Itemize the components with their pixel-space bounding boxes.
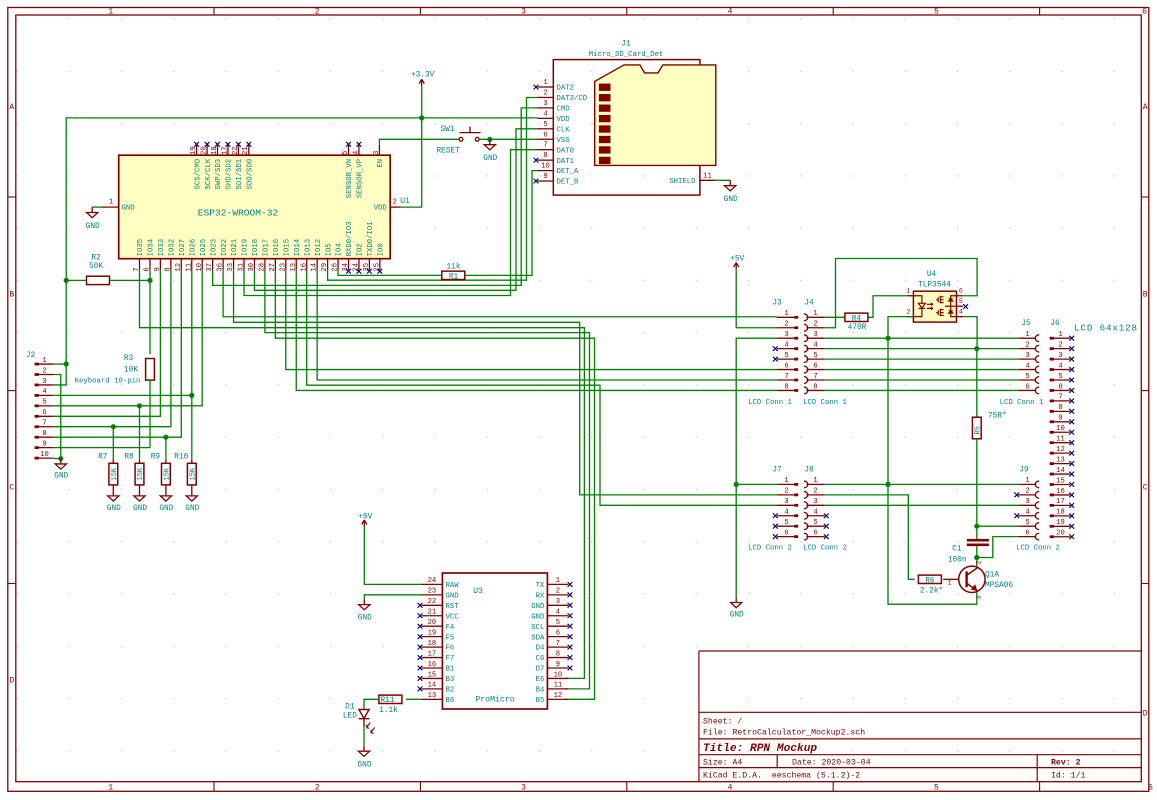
+3.3V power symbol: [419, 79, 424, 86]
J3 pin 7: [777, 379, 794, 381]
no-connect X on J6 pin 3: [1069, 357, 1074, 362]
no-connect X on J7 pin 5: [773, 524, 778, 529]
junction R5 line at J9.5 row: [974, 524, 979, 529]
svg-text:LCD Conn 2: LCD Conn 2: [1016, 545, 1060, 553]
LED D1: [359, 710, 375, 734]
wire +3.3V rail to SD VDD pin: [422, 117, 538, 119]
J8 pin 2: [804, 491, 808, 498]
wire +3.3V stem to rail junction: [421, 86, 423, 118]
svg-text:1.1k: 1.1k: [379, 707, 398, 715]
svg-text:10: 10: [1056, 425, 1065, 433]
svg-text:6: 6: [1058, 383, 1062, 391]
svg-text:J6: J6: [1050, 320, 1060, 328]
no-connect X on J6 pin 2: [1069, 346, 1074, 351]
J5 pin 3: [1018, 358, 1036, 360]
junction J2.10-GND: [58, 456, 63, 461]
J5 pin 5: [1018, 379, 1036, 381]
svg-text:GND: GND: [446, 592, 460, 600]
U4 pin 2: [907, 316, 914, 318]
no-connect X on J6 pin 16: [1069, 493, 1074, 498]
J1 pin 3 CMD: [538, 107, 554, 109]
no-connect X on U1 pin 17: [226, 142, 231, 147]
svg-text:8: 8: [556, 650, 560, 658]
svg-text:SW1: SW1: [440, 126, 454, 134]
wire J4.3 to J5.1: [825, 337, 1019, 339]
svg-text:F6: F6: [446, 645, 455, 653]
ground at D1: [358, 746, 369, 757]
wire DAT0 to IO19: [244, 150, 538, 296]
no-connect X on J6 pin 13: [1069, 461, 1074, 466]
svg-text:ProMicro: ProMicro: [475, 695, 514, 705]
wire +3.3V rail left to keyboard: [66, 118, 422, 364]
svg-text:RXD0/IO3: RXD0/IO3: [346, 221, 354, 256]
wire +5V to RAW: [364, 527, 421, 584]
J6 pin 4: [1050, 369, 1071, 371]
U3 left pin 14 B2: [422, 688, 443, 690]
J1 pin 8 DAT1: [538, 159, 554, 161]
svg-text:A: A: [9, 103, 14, 112]
U1 top pin 21 SDO/SD0: [248, 145, 250, 156]
svg-text:B4: B4: [536, 687, 545, 695]
svg-text:TX: TX: [536, 582, 545, 590]
svg-text:75R*: 75R*: [988, 413, 1007, 421]
wire IO16 to U3 B5: [275, 270, 594, 700]
U1 bottom pin 14 IO12: [316, 259, 318, 270]
svg-text:F5: F5: [446, 634, 455, 642]
svg-text:16: 16: [1056, 488, 1065, 496]
no-connect X on J1 pin 8: [534, 158, 539, 163]
svg-text:C1: C1: [952, 545, 962, 553]
svg-text:15K: 15K: [111, 467, 119, 480]
J9 pin 6: [1018, 536, 1036, 538]
svg-text:IO22: IO22: [221, 239, 229, 257]
wire U3 GND pin to ground: [364, 595, 421, 599]
svg-text:15K: 15K: [189, 467, 197, 480]
svg-text:5: 5: [813, 352, 817, 360]
U4 pin 1: [907, 295, 914, 297]
wire row J2.9 to R3: [54, 447, 150, 449]
svg-text:C: C: [9, 484, 14, 493]
svg-text:5: 5: [813, 519, 817, 527]
svg-text:2: 2: [315, 8, 320, 17]
no-connect X on U1 pin 21: [246, 142, 251, 147]
J9 pin 4: [1018, 515, 1036, 517]
svg-text:ESP32-WROOM-32: ESP32-WROOM-32: [198, 208, 279, 219]
no-connect X on U4 pin 5: [963, 304, 968, 309]
svg-text:1: 1: [784, 310, 788, 318]
svg-text:IO21: IO21: [231, 238, 239, 256]
svg-text:1: 1: [556, 577, 560, 585]
svg-text:470R: 470R: [848, 324, 867, 332]
J6 pin 9: [1050, 421, 1071, 423]
U1 bottom pin 26 IO4: [337, 259, 339, 270]
no-connect X on J6 pin 9: [1069, 419, 1074, 424]
wire IO22 to J3.1: [223, 270, 777, 317]
+5V power symbol at LCD: [734, 263, 739, 270]
J3 pin 3: [777, 337, 794, 339]
svg-text:SENSOR_VN: SENSOR_VN: [346, 159, 354, 198]
svg-text:4: 4: [813, 509, 817, 517]
svg-text:5: 5: [934, 8, 939, 17]
svg-text:IO26: IO26: [189, 239, 197, 257]
svg-text:R6: R6: [925, 577, 935, 585]
wire DET_A to R1: [465, 171, 538, 276]
U1 bottom pin 24 IO2: [358, 259, 360, 270]
svg-text:DAT2: DAT2: [557, 85, 575, 93]
ground at R9: [160, 491, 171, 502]
svg-text:9: 9: [556, 661, 560, 669]
svg-text:4: 4: [1058, 362, 1062, 370]
svg-text:4: 4: [959, 308, 963, 315]
svg-text:B: B: [9, 291, 14, 300]
J5 pin 6: [1018, 389, 1036, 391]
+5V power at U3 RAW: [362, 520, 367, 527]
U3 left pin 22 RST: [422, 604, 443, 606]
svg-text:Q1A: Q1A: [985, 571, 999, 579]
J7 pin 3: [777, 504, 794, 506]
wire R9 drop: [165, 437, 167, 459]
J6 pin 8: [1050, 410, 1071, 412]
wire IO34 down to R3: [149, 270, 151, 354]
J5 pin 1: [1018, 337, 1036, 339]
wire row J2.8 to IO27: [54, 270, 182, 437]
wire U1 GND pin to ground: [92, 206, 102, 208]
svg-text:9: 9: [543, 173, 547, 181]
svg-text:J3: J3: [772, 300, 782, 308]
svg-text:9: 9: [1058, 415, 1062, 423]
no-connect X on J6 pin 18: [1069, 513, 1074, 518]
no-connect X on U1 pin 20: [205, 142, 210, 147]
no-connect X on U3 pin 8: [568, 655, 573, 660]
J9 pin 3: [1018, 504, 1036, 506]
U3 right pin 8 C6: [547, 657, 568, 659]
svg-text:12: 12: [554, 692, 563, 700]
J6 pin 11: [1050, 442, 1071, 444]
U1 bottom pin 8 IO32: [170, 259, 172, 270]
svg-text:SCS/CMD: SCS/CMD: [194, 158, 202, 189]
U1 bottom pin 23 IO15: [285, 259, 287, 270]
svg-text:R1: R1: [449, 273, 459, 281]
svg-text:R8: R8: [124, 453, 134, 461]
wire J8.3 to J9.3: [825, 504, 1019, 506]
svg-text:18: 18: [1056, 509, 1065, 517]
J5 pin 2: [1018, 348, 1036, 350]
svg-text:D4: D4: [536, 645, 545, 653]
wire SW1 to VSS: [479, 138, 537, 140]
svg-text:IO5: IO5: [325, 243, 333, 256]
svg-text:DAT0: DAT0: [557, 147, 575, 155]
svg-text:DAT1: DAT1: [557, 158, 575, 166]
wire U4 pin6 loop to J4.2: [825, 259, 977, 328]
wire R7 drop: [112, 427, 114, 460]
U1 top pin 19 SCS/CMD: [196, 145, 198, 156]
svg-text:14: 14: [1056, 467, 1065, 475]
capacitor C1 100n: [967, 539, 989, 542]
wire R10 drop: [191, 395, 193, 459]
transistor Q1A MPSA06: [959, 566, 985, 592]
svg-text:VSS: VSS: [557, 137, 571, 145]
svg-text:5: 5: [1025, 373, 1029, 381]
svg-text:7: 7: [556, 640, 560, 648]
svg-text:17: 17: [428, 650, 437, 658]
svg-text:+5V: +5V: [730, 255, 744, 263]
U3 left pin 13 B6: [422, 698, 443, 700]
no-connect X on J6 pin 20: [1069, 534, 1074, 539]
U3 left pin 21 VCC: [422, 615, 443, 617]
svg-text:LCD Conn 1: LCD Conn 1: [803, 399, 847, 407]
no-connect X on U3 pin 7: [568, 645, 573, 650]
wire Q1 emitter to ground net: [888, 484, 977, 604]
J9 pin 1: [1018, 483, 1036, 485]
svg-text:+3.3V: +3.3V: [411, 72, 435, 80]
J7 pin 2: [777, 494, 794, 496]
svg-text:R9: R9: [151, 453, 161, 461]
U4 internal LED: [913, 296, 956, 317]
svg-text:4: 4: [543, 110, 547, 118]
svg-text:8: 8: [42, 430, 46, 438]
svg-text:11: 11: [1056, 436, 1065, 444]
svg-text:21: 21: [242, 146, 250, 155]
no-connect X on U3 pin 6: [568, 634, 573, 639]
svg-text:F7: F7: [446, 655, 455, 663]
U4 internal arrows: [927, 303, 933, 305]
svg-text:DET_A: DET_A: [557, 168, 580, 176]
wire J4.6 to J5.4: [825, 369, 1019, 371]
svg-text:5: 5: [959, 298, 963, 305]
svg-text:D7: D7: [536, 666, 545, 674]
svg-text:GND: GND: [133, 505, 147, 513]
svg-text:IO27: IO27: [179, 239, 187, 257]
svg-text:LCD Conn 1: LCD Conn 1: [748, 399, 792, 407]
svg-text:B5: B5: [536, 697, 545, 705]
wire DAT3/CD to IO5: [328, 98, 538, 281]
svg-text:B2: B2: [446, 687, 455, 695]
U1 bottom pin 37 IO23: [212, 259, 214, 270]
svg-text:CMD: CMD: [557, 106, 571, 114]
J3 pin 1: [777, 316, 794, 318]
junction row7-R7: [111, 424, 116, 429]
U1 bottom pin 29 IO5: [327, 259, 329, 270]
U1 bottom pin 31 IO19: [243, 259, 245, 270]
svg-text:5: 5: [934, 784, 939, 793]
J6 pin 2: [1050, 348, 1071, 350]
svg-text:EN: EN: [377, 159, 385, 168]
wire J9.5 from R5/C1 node: [977, 525, 1019, 527]
svg-text:3: 3: [543, 100, 547, 108]
ground at R7: [108, 491, 119, 502]
svg-text:LCD Conn 2: LCD Conn 2: [748, 545, 792, 553]
wire R1 to IO4: [338, 270, 442, 276]
no-connect X on J8 pin 5: [824, 524, 829, 529]
junction R2-IO34: [147, 278, 152, 283]
svg-text:4: 4: [784, 341, 788, 349]
svg-text:2: 2: [813, 488, 817, 496]
svg-text:6: 6: [1142, 8, 1147, 17]
svg-text:23: 23: [428, 588, 437, 596]
svg-text:VCC: VCC: [446, 613, 460, 621]
svg-text:SWP/SD3: SWP/SD3: [215, 159, 223, 190]
svg-text:7: 7: [42, 420, 46, 428]
svg-text:2: 2: [393, 198, 397, 206]
svg-text:16: 16: [428, 661, 437, 669]
no-connect X on J6 pin 10: [1069, 430, 1074, 435]
resistor R10 15K: [191, 459, 193, 463]
no-connect X on U3 pin 15: [418, 676, 423, 681]
resistor R5 75R*: [972, 417, 981, 439]
ground at R10: [186, 491, 197, 502]
wire J8.2 to R6: [825, 495, 915, 579]
svg-text:2.2k*: 2.2k*: [920, 587, 943, 595]
junction +3.3V node: [419, 115, 424, 120]
J3 pin 6: [777, 369, 794, 371]
svg-text:KiCad E.D.A. eeschema (5.1.2): KiCad E.D.A. eeschema (5.1.2)-2: [703, 771, 860, 781]
svg-text:19: 19: [428, 629, 437, 637]
J1 pin 9 DET_B: [538, 180, 554, 182]
svg-text:17: 17: [221, 146, 229, 155]
IC U3 ProMicro body: [442, 573, 547, 709]
svg-text:RX: RX: [536, 592, 545, 600]
svg-text:RST: RST: [446, 603, 460, 611]
svg-text:LED: LED: [343, 712, 357, 720]
svg-text:3: 3: [784, 498, 788, 506]
wire J4.1 to R4: [825, 316, 845, 318]
svg-text:1: 1: [543, 79, 547, 87]
J9 pin 5: [1018, 525, 1036, 527]
svg-text:VDD: VDD: [374, 205, 388, 213]
svg-text:1: 1: [109, 198, 113, 206]
svg-text:3: 3: [42, 378, 46, 386]
U4 internal MOSFETs: [951, 296, 957, 317]
svg-text:GND: GND: [107, 505, 121, 513]
ground at R8: [134, 491, 145, 502]
svg-text:1: 1: [906, 288, 910, 295]
wire row J2.4 to IO26: [54, 394, 192, 396]
svg-text:J8: J8: [804, 467, 814, 475]
J3 pin 2: [777, 327, 794, 329]
svg-text:11k: 11k: [446, 264, 460, 272]
svg-text:D1: D1: [345, 704, 355, 712]
no-connect X on J6 pin 8: [1069, 409, 1074, 414]
J9 pin 2: [1018, 494, 1036, 496]
svg-text:6: 6: [1025, 529, 1029, 537]
svg-text:8: 8: [813, 383, 817, 391]
svg-text:50K: 50K: [89, 263, 103, 271]
svg-text:GND: GND: [122, 205, 136, 213]
svg-text:1: 1: [108, 8, 113, 17]
wire U4 pin4 down to R5: [963, 317, 977, 349]
svg-text:File: RetroCalculator_Mockup2.: File: RetroCalculator_Mockup2.sch: [703, 728, 865, 738]
J4 pin 2: [804, 324, 808, 331]
svg-text:U1: U1: [400, 197, 410, 206]
U1 bottom pin 27 IO16: [274, 259, 276, 270]
J7 pin 6: [777, 536, 794, 538]
svg-text:IO2: IO2: [357, 243, 365, 256]
svg-text:2: 2: [1058, 341, 1062, 349]
no-connect X on J7 pin 6: [773, 534, 778, 539]
svg-text:IO32: IO32: [169, 239, 177, 257]
J1 pin 11 SHIELD: [700, 179, 716, 181]
svg-text:6: 6: [784, 529, 788, 537]
wire IO13 to J7.3: [307, 270, 777, 506]
no-connect X on J7 pin 4: [773, 513, 778, 518]
ground at J2: [55, 459, 66, 470]
no-connect X on U1 pin 4: [357, 142, 362, 147]
J4 pin 1: [804, 314, 808, 321]
wire U1 VDD to +3.3V rail: [401, 118, 422, 207]
no-connect X on J1 pin 9: [534, 179, 539, 184]
svg-text:2: 2: [906, 308, 910, 315]
svg-text:5: 5: [1025, 519, 1029, 527]
svg-text:11: 11: [703, 172, 712, 180]
no-connect X on U3 pin 21: [418, 613, 423, 618]
U3 right pin 9 D7: [547, 667, 568, 669]
svg-text:2: 2: [976, 560, 983, 564]
svg-text:J1: J1: [621, 41, 631, 49]
U3 right pin 12 B5: [547, 698, 568, 700]
svg-text:C6: C6: [536, 655, 545, 663]
svg-text:IO15: IO15: [284, 239, 292, 257]
no-connect X on U1 pin 35: [367, 269, 372, 274]
svg-text:2: 2: [556, 588, 560, 596]
J6 pin 18: [1050, 515, 1071, 517]
ground at J1 SHIELD: [725, 180, 736, 191]
no-connect X on J3 pin 4: [773, 346, 778, 351]
svg-text:10K: 10K: [124, 367, 138, 375]
no-connect X on U3 pin 16: [418, 666, 423, 671]
resistor R9 15K: [165, 459, 167, 463]
J2 pin 5: [35, 405, 54, 407]
svg-text:15K: 15K: [164, 467, 172, 480]
wire row J2.5 to IO25: [54, 270, 203, 406]
U1 bottom pin 12 IO27: [180, 259, 182, 270]
J6 pin 17: [1050, 504, 1071, 506]
J4 pin 4: [804, 345, 808, 352]
svg-text:GND: GND: [531, 613, 545, 621]
svg-text:4: 4: [728, 784, 733, 793]
no-connect X on U1 pin 19: [194, 142, 199, 147]
junction U4.4 at J5.2 row: [974, 346, 979, 351]
svg-text:Date: 2020-03-04: Date: 2020-03-04: [792, 759, 871, 768]
svg-text:R3: R3: [124, 355, 134, 363]
no-connect X on J6 pin 14: [1069, 472, 1074, 477]
no-connect X on U1 pin 25: [377, 269, 382, 274]
svg-text:Rev: 2: Rev: 2: [1051, 759, 1081, 768]
U1 bottom pin 7 IO35: [139, 259, 141, 270]
wire row J2.6 to IO33: [54, 270, 161, 417]
svg-text:R5: R5: [974, 426, 982, 434]
svg-text:6: 6: [1148, 784, 1153, 793]
J1 pin 4 VDD: [538, 117, 554, 119]
svg-text:B1: B1: [446, 666, 455, 674]
no-connect X on J1 pin 1: [534, 85, 539, 90]
wire U1 EN to SW1: [379, 139, 459, 144]
junction C1 bottom node: [974, 555, 979, 560]
svg-text:GND: GND: [357, 761, 371, 769]
no-connect X on U3 pin 14: [418, 687, 423, 692]
no-connect X on J3 pin 5: [773, 357, 778, 362]
junction SW1-GND node: [487, 137, 492, 142]
no-connect X on U3 pin 17: [418, 655, 423, 660]
svg-text:18: 18: [428, 640, 437, 648]
ground at U1 pin 1: [87, 207, 98, 218]
no-connect X on U3 pin 4: [568, 613, 573, 618]
wire CMD to IO23: [213, 108, 538, 286]
svg-text:5: 5: [543, 121, 547, 129]
svg-text:3: 3: [1058, 352, 1062, 360]
J7 pin 4: [777, 515, 794, 517]
svg-text:CLK: CLK: [557, 126, 571, 134]
svg-text:1: 1: [784, 477, 788, 485]
